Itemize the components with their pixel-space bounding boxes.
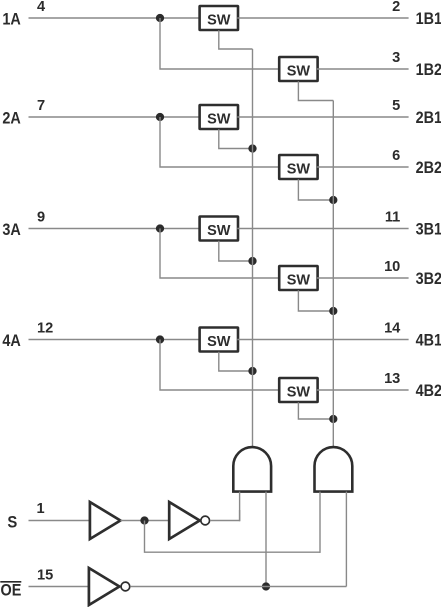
wire SW6 output to 3B2 [317, 277, 409, 279]
junction select bus 2 / SW4 [329, 196, 337, 204]
svg-text:SW: SW [287, 64, 311, 80]
svg-text:3B1: 3B1 [416, 219, 441, 238]
svg-text:4: 4 [37, 0, 46, 15]
buffer U3 (S) [90, 502, 121, 539]
junction select bus 2 / SW6 [329, 307, 337, 315]
svg-text:13: 13 [384, 371, 400, 387]
svg-text:12: 12 [37, 321, 53, 337]
wire 3A branch to SW6 [160, 229, 280, 279]
junction select bus 1 / SW3 [248, 144, 256, 152]
wire 1A input [29, 17, 201, 19]
svg-text:6: 6 [392, 148, 400, 164]
svg-text:10: 10 [384, 259, 400, 275]
wire U2 input B [345, 492, 347, 587]
node 3A junction [156, 224, 164, 232]
AND gate U2 [315, 447, 353, 492]
svg-text:11: 11 [385, 210, 400, 226]
wire select bus 1 (gate U1 output) [252, 49, 254, 447]
svg-text:SW: SW [287, 385, 311, 401]
svg-text:2B1: 2B1 [416, 108, 441, 127]
svg-text:2A: 2A [2, 109, 20, 128]
svg-text:SW: SW [207, 13, 231, 29]
switch SW6 (3A to 3B2) [279, 266, 317, 290]
switch SW2 (1A to 1B2) [279, 57, 317, 81]
wire SW4 control [298, 179, 333, 200]
svg-text:1: 1 [37, 501, 45, 517]
svg-text:4B2: 4B2 [416, 381, 441, 400]
svg-text:OE: OE [1, 580, 22, 599]
wire 3A input [29, 228, 201, 230]
inverter U4 (S) [169, 502, 209, 539]
wire inverter U4 output to U1 [210, 510, 240, 521]
wire SW8 output to 4B2 [317, 389, 409, 391]
wire SW1 output to 1B1 [237, 17, 408, 19]
svg-text:SW: SW [207, 334, 231, 350]
svg-text:SW: SW [287, 162, 311, 178]
AND gate U1 [233, 447, 271, 492]
wire 4A branch to SW8 [160, 340, 280, 391]
wire OE input [29, 586, 91, 588]
wire inverter U5 output to gates [130, 586, 346, 588]
wire U1 input B [265, 492, 267, 587]
wire S input [29, 520, 91, 522]
wire 1A branch to SW2 [160, 18, 280, 69]
switch SW5 (3A to 3B1) [200, 217, 238, 241]
junction select bus 2 / SW8 [329, 415, 337, 423]
svg-text:7: 7 [37, 98, 45, 114]
wire 2A branch to SW4 [160, 117, 280, 167]
wire SW5 control [219, 241, 253, 261]
switch SW3 (2A to 2B1) [200, 105, 238, 129]
wire SW6 control [298, 290, 333, 311]
wire SW8 control [298, 402, 333, 419]
svg-text:3: 3 [392, 50, 400, 66]
wire SW7 control [219, 352, 253, 371]
wire S true branch to U2 [145, 521, 321, 553]
wire SW2 output to 1B2 [317, 68, 409, 70]
svg-text:1B2: 1B2 [416, 60, 441, 79]
svg-text:S: S [7, 513, 17, 532]
wire SW1 control [219, 30, 253, 49]
wire U1 input A [239, 492, 241, 522]
svg-text:9: 9 [37, 210, 45, 226]
wire SW3 control [219, 129, 253, 148]
node 1A junction [156, 14, 164, 22]
node 2A junction [156, 113, 164, 121]
svg-text:5: 5 [392, 98, 400, 114]
svg-text:4B1: 4B1 [416, 330, 441, 349]
svg-text:14: 14 [384, 321, 401, 337]
wire SW7 output to 4B1 [237, 339, 408, 341]
svg-text:1B1: 1B1 [416, 9, 441, 28]
svg-text:3B2: 3B2 [416, 269, 441, 288]
wire 2A input [29, 116, 201, 118]
svg-text:SW: SW [207, 223, 231, 239]
wire SW4 output to 2B2 [317, 166, 409, 168]
node OE input label [0, 580, 21, 599]
junction select bus 1 / SW7 [248, 367, 256, 375]
svg-text:SW: SW [207, 112, 231, 128]
wire SW2 control [298, 81, 333, 100]
svg-text:4A: 4A [2, 331, 20, 350]
wire SW5 output to 3B1 [237, 228, 408, 230]
svg-text:SW: SW [287, 273, 311, 289]
wire SW3 output to 2B1 [237, 116, 408, 118]
wire 4A input [29, 339, 201, 341]
svg-text:1A: 1A [2, 10, 20, 29]
inverter U5 (OE) [89, 568, 130, 605]
switch SW8 (4A to 4B2) [279, 378, 317, 402]
junction select bus 1 / SW5 [248, 257, 256, 265]
junction U1 input B / OE net [262, 582, 270, 590]
node S buffer junction [140, 516, 148, 524]
svg-text:15: 15 [37, 568, 53, 584]
wire select bus 2 (gate U2 output) [332, 101, 334, 447]
switch SW7 (4A to 4B1) [200, 328, 238, 352]
node 4A junction [156, 335, 164, 343]
switch SW4 (2A to 2B2) [279, 155, 317, 179]
svg-text:2: 2 [392, 0, 400, 15]
svg-text:2B2: 2B2 [416, 158, 441, 177]
wire U2 input A [319, 492, 321, 553]
svg-text:3A: 3A [2, 220, 20, 239]
switch SW1 (1A to 1B1) [200, 6, 238, 30]
wire buffer U3 output [120, 520, 169, 522]
